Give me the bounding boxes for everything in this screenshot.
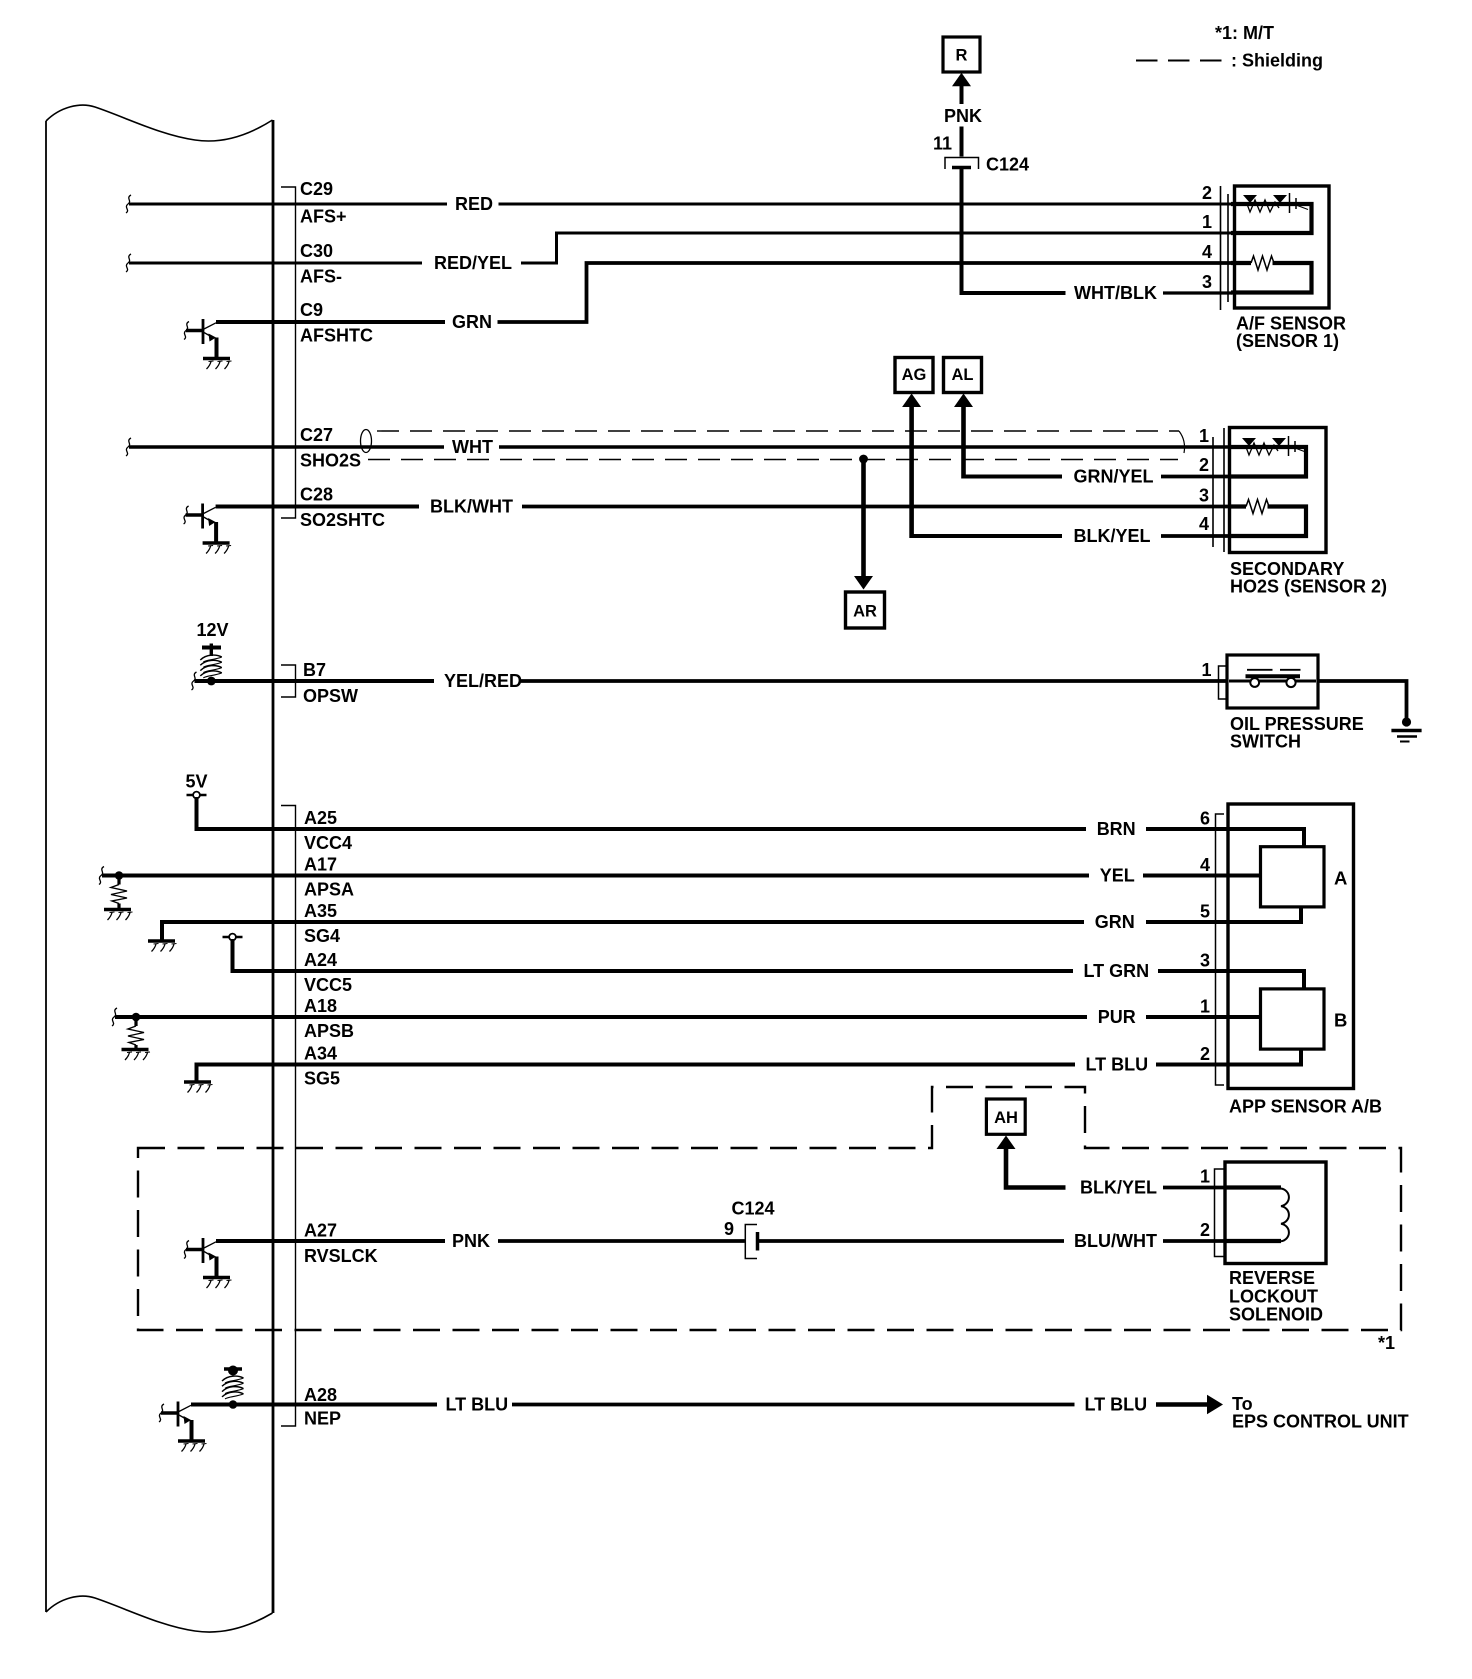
svg-text:GRN: GRN xyxy=(1095,912,1135,932)
svg-text:A35: A35 xyxy=(304,901,337,921)
svg-text:AL: AL xyxy=(952,366,974,384)
transistor xyxy=(177,1402,180,1427)
legend shielding text xyxy=(1231,51,1323,71)
APP sensor pin 6 xyxy=(1200,809,1210,829)
ground xyxy=(203,357,230,360)
oil pressure switch pin 1 xyxy=(1201,660,1211,680)
label BLK/YEL solenoid xyxy=(1080,1178,1157,1198)
HO2S internal loop pins 1-2 xyxy=(1231,447,1306,477)
svg-text:BLU/WHT: BLU/WHT xyxy=(1074,1231,1157,1251)
svg-text:A27: A27 xyxy=(304,1221,337,1241)
svg-text:RED/YEL: RED/YEL xyxy=(434,253,512,273)
label A/F SENSOR (SENSOR 1) xyxy=(1236,314,1346,352)
svg-text:RED: RED xyxy=(455,194,493,214)
ground xyxy=(203,541,230,544)
svg-text:RVSLCK: RVSLCK xyxy=(304,1246,378,1266)
A/F sensor box xyxy=(1235,186,1330,308)
svg-text:YEL/RED: YEL/RED xyxy=(444,671,522,691)
svg-text:A28: A28 xyxy=(304,1385,337,1405)
ground xyxy=(203,1276,230,1279)
wire YEL from A17 xyxy=(273,874,1232,878)
A/F sensor pin numbers xyxy=(1202,183,1212,292)
label BRN xyxy=(1097,819,1136,839)
svg-text:1: 1 xyxy=(1201,660,1211,680)
transistor Q4 NEP driver xyxy=(159,1402,207,1452)
label GRN/YEL xyxy=(1074,467,1154,487)
wire BLU/WHT to solenoid pin 2 xyxy=(1163,1239,1226,1243)
label BLK/WHT xyxy=(430,497,513,517)
svg-text:AR: AR xyxy=(853,603,877,621)
wire SG5 to ground xyxy=(197,1065,274,1083)
HO2S internal heater pins 3-4 xyxy=(1231,507,1306,537)
wire A17 pull-down node xyxy=(99,867,273,910)
label WHT xyxy=(452,437,493,457)
APP sensor pin 3 xyxy=(1200,951,1210,971)
label PNK A27 xyxy=(452,1231,490,1251)
wire BLK/YEL to HO2S pin 4 xyxy=(912,534,1232,538)
solenoid connector bracket xyxy=(1215,1169,1226,1257)
svg-text:APSB: APSB xyxy=(304,1021,354,1041)
dashed option box (M/T reverse lockout circuit) xyxy=(138,1087,1401,1330)
svg-text:C29: C29 xyxy=(300,179,333,199)
wire BRN from A25 xyxy=(273,827,1232,831)
svg-text:AG: AG xyxy=(902,366,927,384)
pin A34 label xyxy=(304,1044,340,1089)
wire BLK/YEL up-arrow to AH xyxy=(997,1136,1066,1188)
svg-text:BLK/WHT: BLK/WHT xyxy=(430,497,513,517)
svg-text:C27: C27 xyxy=(300,425,333,445)
svg-text:(SENSOR 1): (SENSOR 1) xyxy=(1236,331,1339,351)
svg-text:SG5: SG5 xyxy=(304,1069,340,1089)
svg-text:OPSW: OPSW xyxy=(303,686,358,706)
oil pressure switch box xyxy=(1227,655,1318,708)
svg-text:SOLENOID: SOLENOID xyxy=(1229,1305,1323,1325)
APP sensor internal wires A xyxy=(1229,829,1304,922)
svg-text:SHO2S: SHO2S xyxy=(300,451,361,471)
svg-text:9: 9 xyxy=(724,1219,734,1239)
pin C27 label xyxy=(300,425,361,471)
svg-text:B: B xyxy=(1334,1010,1347,1031)
oil pressure switch bracket xyxy=(1219,666,1227,699)
wire RED/YEL jog to A/F pin 1 xyxy=(521,233,1232,263)
pin C29 label xyxy=(300,179,347,227)
svg-text:BLK/YEL: BLK/YEL xyxy=(1074,526,1151,546)
svg-text:B7: B7 xyxy=(303,660,326,680)
wire C29 internal stub xyxy=(126,195,273,213)
APP sensor pin 4 xyxy=(1200,855,1210,875)
svg-text:12V: 12V xyxy=(197,620,229,640)
ground APSA xyxy=(104,910,133,921)
APP sensor element A xyxy=(1261,847,1348,907)
label YEL xyxy=(1100,866,1135,886)
wire PNK below C124 to WHT/BLK xyxy=(962,169,1066,294)
svg-text:1: 1 xyxy=(1200,997,1210,1017)
svg-text:1: 1 xyxy=(1200,1167,1210,1187)
wire shield down-arrow to AR xyxy=(854,459,873,590)
svg-text:HO2S (SENSOR 2): HO2S (SENSOR 2) xyxy=(1230,577,1387,597)
wire BLK/WHT from C28 xyxy=(273,505,419,509)
label RED xyxy=(455,194,493,214)
wire LT BLU from A34 xyxy=(273,1063,1232,1067)
svg-text:1: 1 xyxy=(1199,426,1209,446)
A/F sensor connector lines xyxy=(1221,186,1229,310)
pin A28 label xyxy=(304,1385,341,1429)
wire YEL/RED from B7 xyxy=(273,679,434,683)
label REVERSE LOCKOUT SOLENOID xyxy=(1229,1268,1323,1325)
wire SG4 to ground xyxy=(162,922,273,941)
svg-text:2: 2 xyxy=(1200,1044,1210,1064)
svg-text:2: 2 xyxy=(1199,455,1209,475)
svg-text:YEL: YEL xyxy=(1100,866,1135,886)
APP sensor pin 1 xyxy=(1200,997,1210,1017)
svg-text:REVERSE: REVERSE xyxy=(1229,1268,1315,1288)
wire WHT/BLK to A/F sensor pin 3 xyxy=(1163,291,1232,294)
wire C9 collector stub xyxy=(216,320,273,324)
svg-text:PNK: PNK xyxy=(452,1231,490,1251)
shield drain loop xyxy=(361,430,372,453)
connector box AH xyxy=(986,1099,1025,1134)
oil pressure switch contacts xyxy=(1229,670,1316,687)
label GRN xyxy=(1095,912,1135,932)
svg-text:SO2SHTC: SO2SHTC xyxy=(300,510,385,530)
svg-text:APSA: APSA xyxy=(304,880,354,900)
svg-text:C124: C124 xyxy=(986,155,1029,175)
svg-text:PUR: PUR xyxy=(1098,1007,1136,1027)
svg-text:SWITCH: SWITCH xyxy=(1230,732,1301,752)
connector box R xyxy=(943,37,980,72)
solenoid coil xyxy=(1226,1188,1289,1242)
shielding dashed line lower xyxy=(368,459,1178,461)
wire C30 internal stub xyxy=(126,254,273,272)
label LT BLU xyxy=(1086,1055,1149,1075)
connector C124 (pin 11) xyxy=(945,158,979,170)
wire LT GRN from A24 xyxy=(273,969,1232,973)
svg-text:C124: C124 xyxy=(732,1199,775,1219)
A/F heater resistor xyxy=(1251,256,1274,270)
svg-text:4: 4 xyxy=(1202,242,1212,262)
wire C27 internal stub xyxy=(126,438,273,456)
wire PUR from A18 xyxy=(273,1015,1232,1019)
svg-text:5V: 5V xyxy=(186,772,208,792)
connector box AG xyxy=(895,358,933,393)
svg-text:EPS CONTROL UNIT: EPS CONTROL UNIT xyxy=(1232,1412,1409,1432)
transistor xyxy=(202,319,205,344)
pin A17 label xyxy=(304,855,354,900)
svg-text:VCC5: VCC5 xyxy=(304,975,352,995)
wire VCC5 to A24 xyxy=(233,939,274,971)
svg-text:C28: C28 xyxy=(300,485,333,505)
label LT GRN xyxy=(1084,961,1150,981)
svg-text:LT BLU: LT BLU xyxy=(446,1395,509,1415)
svg-text:C30: C30 xyxy=(300,241,333,261)
wire RED from C29 xyxy=(273,203,1232,206)
svg-text:2: 2 xyxy=(1200,1220,1210,1240)
APP sensor pin 5 xyxy=(1200,902,1210,922)
wire BLK/YEL up-arrow to AG xyxy=(902,394,921,539)
svg-text:3: 3 xyxy=(1199,486,1209,506)
transistor Q1 AFSHTC driver xyxy=(184,319,232,369)
wire LT BLU from A28 xyxy=(273,1403,437,1407)
label LT BLU right xyxy=(1085,1395,1148,1415)
svg-text:BLK/YEL: BLK/YEL xyxy=(1080,1178,1157,1198)
reverse lockout solenoid box xyxy=(1225,1162,1326,1264)
wire GRN/YEL to HO2S pin 2 xyxy=(964,475,1233,479)
junction node on shield xyxy=(859,455,868,464)
wire PNK vertical to R xyxy=(952,73,971,157)
ground APSB xyxy=(122,1050,151,1061)
svg-text:LT GRN: LT GRN xyxy=(1084,961,1150,981)
svg-text:WHT/BLK: WHT/BLK xyxy=(1074,283,1157,303)
label *1 xyxy=(1378,1333,1395,1353)
supply 5V xyxy=(186,772,208,799)
svg-text:APP SENSOR A/B: APP SENSOR A/B xyxy=(1229,1097,1382,1117)
svg-text:*1: M/T: *1: M/T xyxy=(1215,23,1274,43)
svg-text:NEP: NEP xyxy=(304,1409,341,1429)
label LT BLU A28 xyxy=(446,1395,509,1415)
wire GRN/YEL up-arrow to AL xyxy=(954,394,973,479)
transistor base lead wire xyxy=(186,329,204,333)
label BLU/WHT xyxy=(1074,1231,1157,1251)
pin A18 label xyxy=(304,996,354,1041)
ECM/PCM module outline (torn box) xyxy=(46,105,273,1632)
svg-text:4: 4 xyxy=(1200,855,1210,875)
connector C124 (pin 9) xyxy=(745,1225,757,1259)
APP sensor element B xyxy=(1261,989,1348,1049)
wire BLU/WHT from C124 xyxy=(759,1239,1065,1243)
legend shielding dash sample xyxy=(1136,60,1222,62)
svg-text:A: A xyxy=(1334,868,1347,889)
HO2S pin numbers xyxy=(1199,426,1209,534)
HO2S heater resistor xyxy=(1246,500,1269,514)
pin C30 label xyxy=(300,241,342,287)
svg-text:GRN/YEL: GRN/YEL xyxy=(1074,467,1154,487)
svg-text:BRN: BRN xyxy=(1097,819,1136,839)
ECM connector B bracket xyxy=(281,665,296,697)
svg-text:11: 11 xyxy=(933,134,952,154)
wire PNK to C124 pin 9 xyxy=(498,1239,746,1243)
label SECONDARY HO2S (SENSOR 2) xyxy=(1230,559,1387,597)
ECM connector C bracket xyxy=(281,187,296,518)
svg-text:A17: A17 xyxy=(304,855,337,875)
ground SG5 xyxy=(184,1082,213,1093)
transistor base lead wire xyxy=(186,1248,204,1252)
APP sensor pin 2 xyxy=(1200,1044,1210,1064)
svg-text:LT BLU: LT BLU xyxy=(1086,1055,1149,1075)
svg-text:LT BLU: LT BLU xyxy=(1085,1395,1148,1415)
chassis ground xyxy=(1391,717,1421,741)
wire A28 collector stub xyxy=(191,1403,273,1407)
svg-text:AFS+: AFS+ xyxy=(300,207,347,227)
connector box AL xyxy=(944,358,982,393)
svg-text:A24: A24 xyxy=(304,950,337,970)
pin A35 label xyxy=(304,901,340,946)
svg-text:1: 1 xyxy=(1202,212,1212,232)
APP sensor internal wires B xyxy=(1229,971,1304,1065)
wire C28 collector stub xyxy=(216,505,273,509)
transistor Q3 RVSLCK driver xyxy=(184,1238,232,1288)
svg-text:WHT: WHT xyxy=(452,437,493,457)
label PNK xyxy=(944,106,982,126)
legend note *1: M/T xyxy=(1215,23,1274,43)
wire A18 pull-down node xyxy=(112,1008,273,1050)
label WHT/BLK xyxy=(1074,283,1157,303)
label RED/YEL xyxy=(434,253,512,273)
APP sensor box xyxy=(1228,804,1354,1089)
wire A27 collector stub xyxy=(216,1239,273,1243)
label YEL/RED xyxy=(444,671,522,691)
wire BLK/WHT to HO2S pin 3 xyxy=(522,505,1232,509)
A/F sensor element symbol xyxy=(1243,193,1308,213)
label C124 xyxy=(986,155,1029,175)
svg-text:AFSHTC: AFSHTC xyxy=(300,326,373,346)
svg-text:VCC4: VCC4 xyxy=(304,833,352,853)
wire YEL/RED to oil pressure switch xyxy=(521,679,1227,683)
svg-text:6: 6 xyxy=(1200,809,1210,829)
svg-text:R: R xyxy=(956,47,968,65)
wire switch to ground xyxy=(1318,681,1407,719)
shielding dashed line upper xyxy=(377,431,1184,453)
wire WHT from C27 xyxy=(273,445,1232,449)
pin C9 label xyxy=(300,300,373,346)
HO2S connector lines xyxy=(1213,428,1224,552)
connector box AR xyxy=(846,592,885,628)
wire GRN from A35 xyxy=(273,920,1232,924)
label GRN xyxy=(452,312,492,332)
pin 11 label xyxy=(933,134,952,154)
wire 5V to A25 xyxy=(197,797,274,829)
svg-text:3: 3 xyxy=(1200,951,1210,971)
transistor Q2 SO2SHTC driver xyxy=(184,504,232,554)
svg-text:4: 4 xyxy=(1199,514,1209,534)
label PUR xyxy=(1098,1007,1136,1027)
supply 5V VCC5 xyxy=(223,934,243,941)
supply 12V xyxy=(197,620,229,678)
wire GRN jog to A/F pin 4 xyxy=(498,263,1233,322)
NEP pull-up supply xyxy=(222,1366,244,1409)
svg-text:C9: C9 xyxy=(300,300,323,320)
junction node 12V on B7 wire xyxy=(207,677,216,686)
transistor xyxy=(202,1238,205,1263)
label BLK/YEL xyxy=(1074,526,1151,546)
pin C28 label xyxy=(300,485,385,531)
svg-text:*1: *1 xyxy=(1378,1333,1395,1353)
solenoid pin numbers xyxy=(1200,1167,1210,1241)
svg-text:A34: A34 xyxy=(304,1044,337,1064)
svg-text:PNK: PNK xyxy=(944,106,982,126)
svg-text:LOCKOUT: LOCKOUT xyxy=(1229,1287,1318,1307)
transistor xyxy=(201,504,204,529)
pin A27 label xyxy=(304,1221,378,1267)
A/F sensor internal heater pins 4-3 xyxy=(1231,263,1312,293)
label C124 pin 9 xyxy=(724,1199,775,1240)
svg-text:AFS-: AFS- xyxy=(300,267,342,287)
label OIL PRESSURE SWITCH xyxy=(1230,714,1364,752)
wire RED/YEL from C30 xyxy=(273,262,422,265)
APP sensor connector bracket xyxy=(1216,814,1225,1085)
A/F sensor internal loop pins 2-1 xyxy=(1231,204,1312,233)
svg-text:2: 2 xyxy=(1202,183,1212,203)
svg-text:A18: A18 xyxy=(304,996,337,1016)
secondary HO2S box xyxy=(1230,428,1327,553)
svg-text:A25: A25 xyxy=(304,808,337,828)
transistor base lead wire xyxy=(186,513,204,517)
wire B7 internal stub xyxy=(192,672,274,690)
wire LT BLU arrow to EPS xyxy=(1156,1395,1223,1415)
label To EPS CONTROL UNIT xyxy=(1232,1394,1409,1432)
label APP SENSOR A/B xyxy=(1229,1097,1382,1117)
svg-text:5: 5 xyxy=(1200,902,1210,922)
pin A24 label xyxy=(304,950,352,995)
svg-text:3: 3 xyxy=(1202,272,1212,292)
ECM connector A bracket xyxy=(281,806,296,1427)
pin B7 label xyxy=(303,660,358,706)
transistor base lead wire xyxy=(161,1411,179,1415)
wire PNK from A27 xyxy=(273,1239,445,1243)
wire LT BLU long run xyxy=(512,1403,1075,1407)
HO2S sensor element symbol xyxy=(1242,436,1307,456)
ground SG4 xyxy=(148,941,177,952)
ground xyxy=(178,1439,205,1442)
svg-text:: Shielding: : Shielding xyxy=(1231,51,1323,71)
svg-text:AH: AH xyxy=(994,1109,1018,1127)
svg-text:SG4: SG4 xyxy=(304,926,340,946)
pin A25 label xyxy=(304,808,352,853)
svg-text:GRN: GRN xyxy=(452,312,492,332)
wire BLK/YEL to solenoid pin 1 xyxy=(1163,1186,1226,1190)
wire GRN from C9 xyxy=(273,320,445,324)
